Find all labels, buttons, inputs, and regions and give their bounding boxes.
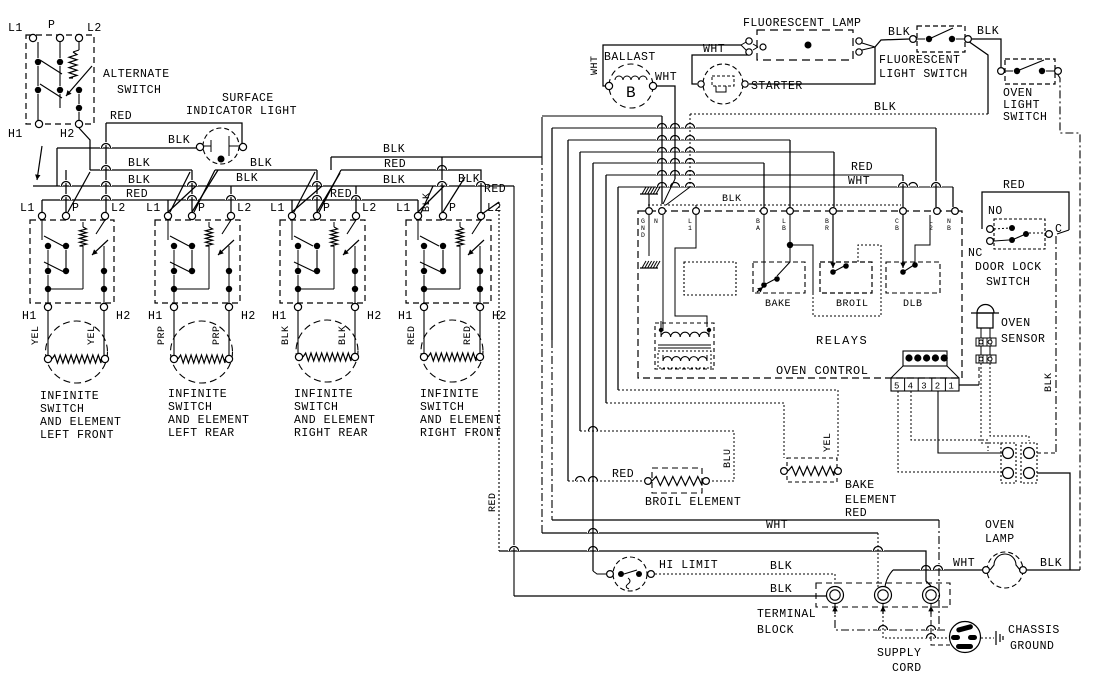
svg-text:5: 5 xyxy=(894,382,900,392)
svg-text:BAKE: BAKE xyxy=(765,299,791,310)
wire L2 line to terminal3 xyxy=(499,551,931,586)
wire terminal2 down to supply xyxy=(883,604,950,638)
right rear H1 wire to element xyxy=(297,311,299,353)
svg-text:INDICATOR LIGHT: INDICATOR LIGHT xyxy=(186,105,297,118)
BLK wire y205 xyxy=(648,204,901,206)
door lock contacts xyxy=(1009,225,1015,231)
starter circle xyxy=(703,64,743,104)
harness connector block 1 xyxy=(1001,443,1016,483)
hi limit feed xyxy=(592,163,594,571)
wire BLK bus y170 segment 1 xyxy=(90,169,192,171)
oven sensor bulb xyxy=(977,305,994,314)
wire LB junction to right xyxy=(790,245,813,293)
svg-text:RED: RED xyxy=(463,325,474,345)
svg-text:BLU: BLU xyxy=(723,448,734,468)
wire BLK hi limit to terminal1 xyxy=(655,574,835,586)
wire pin5 down xyxy=(898,391,1004,472)
svg-text:SUPPLY: SUPPLY xyxy=(877,647,921,660)
wire pin1 to sensor xyxy=(959,384,979,386)
infinite switch right rear box xyxy=(280,220,365,303)
transformer primary coil xyxy=(661,332,709,337)
vertical wire x662 from bus to N xyxy=(661,116,663,204)
right rear internal contacts xyxy=(291,220,293,240)
svg-text:L1: L1 xyxy=(8,22,23,35)
svg-text:HI LIMIT: HI LIMIT xyxy=(659,559,718,572)
svg-text:SWITCH: SWITCH xyxy=(40,403,84,416)
wire BLK bus y170 segment 2 xyxy=(215,169,317,171)
vertical wire x690 dotted xyxy=(689,114,691,187)
svg-text:N: N xyxy=(654,218,658,225)
svg-text:RED: RED xyxy=(845,507,867,520)
wire N to transformer xyxy=(662,215,664,331)
connector plug body xyxy=(903,351,947,366)
bake element terminals and resistor xyxy=(781,468,788,475)
svg-text:H1: H1 xyxy=(272,310,287,323)
door lock terminals xyxy=(987,226,994,233)
starter terminals xyxy=(698,81,704,87)
terminal block terminal 2 xyxy=(875,587,892,604)
svg-text:BLK: BLK xyxy=(722,194,742,205)
wire BLK top drop to P block4 xyxy=(441,157,443,212)
BAKE relay contacts xyxy=(761,282,767,288)
svg-text:RIGHT REAR: RIGHT REAR xyxy=(294,427,368,440)
bus line7 to NB terminal xyxy=(952,187,954,207)
internal ground symbol xyxy=(640,267,658,269)
wire from alternate switch H2 xyxy=(79,128,90,170)
svg-text:BLK: BLK xyxy=(1040,557,1062,570)
svg-text:RIGHT FRONT: RIGHT FRONT xyxy=(420,427,501,440)
BROIL relay contacts xyxy=(830,269,836,275)
connector numbered strip xyxy=(891,378,959,391)
svg-text:L1: L1 xyxy=(20,202,35,215)
svg-text:INFINITE: INFINITE xyxy=(294,388,353,401)
wire RED feed door lock xyxy=(982,192,1069,230)
terminal block terminal 3 xyxy=(923,587,940,604)
svg-text:TERMINAL: TERMINAL xyxy=(757,608,816,621)
wire L1 terminal drop xyxy=(695,205,697,208)
oven lamp filament xyxy=(990,554,1020,570)
right rear bottom internal wire xyxy=(298,288,334,290)
svg-text:WHT: WHT xyxy=(655,71,677,84)
wire L2 drop of block1 xyxy=(105,123,107,212)
svg-text:ELEMENT: ELEMENT xyxy=(845,494,897,507)
svg-text:BLK: BLK xyxy=(770,583,792,596)
svg-text:P: P xyxy=(198,202,205,215)
svg-text:OVEN: OVEN xyxy=(985,519,1015,532)
wire ballast left up and over xyxy=(603,45,741,86)
svg-text:INFINITE: INFINITE xyxy=(40,390,99,403)
infinite switch right front terminal H2 xyxy=(476,303,483,310)
bus bumps xyxy=(102,166,111,171)
svg-text:WHT: WHT xyxy=(590,55,601,75)
arm diagonal L2 block4 to V1 xyxy=(482,202,499,214)
connector trapezoid xyxy=(891,366,903,378)
svg-text:BLK: BLK xyxy=(770,560,792,573)
svg-text:INFINITE: INFINITE xyxy=(420,388,479,401)
wire starter right to lamp right xyxy=(749,47,875,84)
wire RED to supply xyxy=(552,519,939,521)
svg-text:FLUORESCENT: FLUORESCENT xyxy=(879,54,960,67)
svg-text:A: A xyxy=(756,225,760,232)
svg-text:RED: RED xyxy=(484,183,506,196)
svg-text:B: B xyxy=(825,218,829,225)
left rear internal contacts xyxy=(167,220,169,240)
svg-text:L2: L2 xyxy=(362,202,377,215)
fluorescent light switch box xyxy=(917,26,965,52)
svg-text:BALLAST: BALLAST xyxy=(604,51,656,64)
infinite switch left rear terminal H2 xyxy=(225,303,232,310)
infinite switch left rear box xyxy=(155,220,240,303)
wire L1 to transformer xyxy=(675,215,707,327)
hi limit contacts xyxy=(618,571,624,577)
svg-text:C: C xyxy=(1055,223,1062,236)
svg-text:STARTER: STARTER xyxy=(751,80,803,93)
svg-text:PRP: PRP xyxy=(157,325,168,345)
svg-text:D: D xyxy=(641,232,645,239)
svg-text:H2: H2 xyxy=(116,310,131,323)
bake element box xyxy=(787,458,837,482)
lamp right terminals xyxy=(856,38,862,44)
left front H2 wire to element xyxy=(103,311,105,355)
svg-text:LIGHT SWITCH: LIGHT SWITCH xyxy=(879,68,968,81)
svg-text:1: 1 xyxy=(688,225,692,232)
svg-text:AND ELEMENT: AND ELEMENT xyxy=(294,414,375,427)
right rear H2 wire to element xyxy=(354,311,356,353)
wire BLK to indicator left xyxy=(57,147,196,149)
svg-text:B: B xyxy=(782,225,786,232)
wire P stub block2 xyxy=(191,170,193,212)
wire V1 red drop from switches xyxy=(498,202,500,551)
svg-text:RED: RED xyxy=(110,110,132,123)
alternate switch terminal L1 xyxy=(29,34,36,41)
right front H2 wire to element xyxy=(479,311,481,353)
svg-text:WHT: WHT xyxy=(953,557,975,570)
infinite switch right front box xyxy=(406,220,491,303)
arm diagonal P block3 xyxy=(319,170,341,212)
svg-text:BLK: BLK xyxy=(128,157,150,170)
svg-text:P: P xyxy=(323,202,330,215)
svg-text:B: B xyxy=(947,225,951,232)
svg-text:NO: NO xyxy=(988,205,1003,218)
svg-text:RED: RED xyxy=(1003,179,1025,192)
wire lamp to right vertical xyxy=(1027,569,1080,571)
svg-text:L1: L1 xyxy=(396,202,411,215)
svg-text:L2: L2 xyxy=(87,22,102,35)
svg-text:YEL: YEL xyxy=(823,432,834,452)
alternate switch terminal L2 xyxy=(75,34,82,41)
element resistor right front xyxy=(420,353,427,360)
wire RED bus y200 xyxy=(42,199,418,201)
svg-text:BLK: BLK xyxy=(383,174,405,187)
bus line1 right vertical up to fluorescent switch xyxy=(968,41,988,114)
svg-text:N: N xyxy=(947,218,951,225)
right front bottom internal wire xyxy=(424,288,460,290)
svg-text:BLK: BLK xyxy=(338,325,349,345)
right front internal resistor xyxy=(457,227,464,246)
svg-text:B: B xyxy=(756,218,760,225)
svg-text:DLB: DLB xyxy=(903,299,923,310)
bus line3 to LB terminal xyxy=(789,140,791,207)
surface indicator terminal right xyxy=(239,143,246,150)
element resistor right rear xyxy=(295,353,302,360)
svg-text:H1: H1 xyxy=(148,310,163,323)
wire fluorescent switch to oven light switch xyxy=(972,39,1001,67)
svg-text:DOOR LOCK: DOOR LOCK xyxy=(975,261,1042,274)
broil element box xyxy=(652,468,702,493)
fluorescent lamp dashed box xyxy=(757,30,853,60)
svg-text:BLK: BLK xyxy=(281,325,292,345)
oven lamp terminals xyxy=(983,567,990,574)
top BLK line over blocks 3-4 xyxy=(330,157,332,170)
svg-text:SWITCH: SWITCH xyxy=(1003,111,1047,124)
sensor leads xyxy=(980,328,982,338)
svg-text:SURFACE: SURFACE xyxy=(222,92,274,105)
svg-text:WHT: WHT xyxy=(848,175,870,188)
svg-text:SENSOR: SENSOR xyxy=(1001,333,1045,346)
svg-text:SWITCH: SWITCH xyxy=(420,401,464,414)
starter internals xyxy=(712,76,734,86)
left front internal resistor xyxy=(80,227,87,246)
oven light switch contacts xyxy=(1014,68,1020,74)
right front pivot arm xyxy=(472,220,481,234)
fluorescent light switch contacts xyxy=(926,36,932,42)
wire WHT to terminal 2 xyxy=(542,532,878,534)
DLB relay contacts xyxy=(900,269,906,275)
svg-text:P: P xyxy=(72,202,79,215)
svg-text:BLK: BLK xyxy=(888,26,910,39)
infinite switch right rear terminal L2 xyxy=(352,212,359,219)
svg-text:BLK: BLK xyxy=(168,134,190,147)
svg-text:SWITCH: SWITCH xyxy=(294,401,338,414)
svg-text:AND ELEMENT: AND ELEMENT xyxy=(40,416,121,429)
wire V3 long vertical xyxy=(541,157,543,533)
wire ballast right down xyxy=(657,86,675,179)
chassis ground wire xyxy=(981,637,994,639)
svg-text:BAKE: BAKE xyxy=(845,479,875,492)
element circle right rear xyxy=(296,320,358,382)
infinite switch left front terminal P xyxy=(62,212,69,219)
arm diagonal L1 block4 xyxy=(420,186,433,215)
door lock switch box xyxy=(994,219,1045,249)
arm diagonal P block1 xyxy=(68,172,90,212)
svg-text:RED: RED xyxy=(330,188,352,201)
svg-text:BLK: BLK xyxy=(874,101,896,114)
bus verticals left side going down xyxy=(551,128,553,340)
svg-text:SWITCH: SWITCH xyxy=(986,276,1030,289)
svg-text:OVEN CONTROL: OVEN CONTROL xyxy=(776,364,868,378)
ground symbol above box xyxy=(640,193,658,195)
svg-text:ALTERNATE: ALTERNATE xyxy=(103,68,170,81)
bus line1 right BLK segment xyxy=(690,113,988,115)
relay coil empty box xyxy=(684,262,736,295)
wire broil RED feed xyxy=(568,480,644,482)
wire P stub block3 xyxy=(316,170,318,212)
surface indicator internals xyxy=(204,145,211,147)
nested bus lines xyxy=(542,115,662,117)
svg-text:RED: RED xyxy=(851,161,873,174)
infinite switch right rear terminal L1 xyxy=(288,212,295,219)
svg-text:BLK: BLK xyxy=(383,143,405,156)
wire broil BLU return xyxy=(580,431,734,481)
svg-text:BLK: BLK xyxy=(977,25,999,38)
left rear H1 wire to element xyxy=(173,311,175,355)
switch feeder diagonals xyxy=(168,186,196,212)
infinite switch right front terminal H1 xyxy=(420,303,427,310)
left rear H2 wire to element xyxy=(228,311,230,355)
lamp filament dot xyxy=(805,42,812,49)
svg-text:INFINITE: INFINITE xyxy=(168,388,227,401)
wire RED vertical dashdot xyxy=(938,520,940,631)
wire oven light switch down to lamp feed xyxy=(1058,75,1080,570)
right rear internal resistor xyxy=(331,227,338,246)
supply cord plug xyxy=(950,622,981,653)
infinite switch left front terminal L2 xyxy=(101,212,108,219)
bus line5 to BA terminal xyxy=(763,163,765,207)
sensor wires down to connectors xyxy=(981,363,1001,443)
infinite switch right rear terminal P xyxy=(313,212,320,219)
BAKE relay box xyxy=(753,262,805,293)
alternate switch resistor xyxy=(69,52,77,78)
arm diagonal L1 block2 xyxy=(170,172,190,212)
fluorescent light switch terminals xyxy=(910,36,917,43)
element circle right front xyxy=(421,320,483,382)
BROIL relay box xyxy=(820,262,872,293)
DLB relay box xyxy=(886,262,940,293)
wire solid into terminal2 xyxy=(877,533,879,588)
wire terminal3 down to supply xyxy=(931,604,950,645)
infinite switch right front terminal L2 xyxy=(477,212,484,219)
alternate switch internal wires xyxy=(37,42,39,58)
terminal block entry arrows xyxy=(834,606,836,614)
ballast terminals xyxy=(605,82,612,89)
svg-text:B: B xyxy=(895,225,899,232)
left front H1 wire to element xyxy=(47,311,49,355)
arm diagonal L1 block3 xyxy=(294,172,315,212)
svg-text:C: C xyxy=(895,218,899,225)
svg-text:H1: H1 xyxy=(22,310,37,323)
svg-text:CHASSIS: CHASSIS xyxy=(1008,624,1060,637)
bus line4 to BR terminal xyxy=(833,152,835,207)
wire terminal1 down to supply xyxy=(835,604,948,630)
svg-text:CORD: CORD xyxy=(892,662,922,675)
svg-text:P: P xyxy=(48,19,55,32)
arrow pointer below H1 xyxy=(37,146,42,180)
svg-text:L2: L2 xyxy=(111,202,126,215)
svg-text:BROIL ELEMENT: BROIL ELEMENT xyxy=(645,496,741,509)
svg-text:OVEN: OVEN xyxy=(1001,317,1031,330)
hi limit circle xyxy=(613,557,647,591)
infinite switch left front terminal H2 xyxy=(100,303,107,310)
svg-text:BROIL: BROIL xyxy=(836,299,869,310)
surface indicator terminal left xyxy=(196,143,203,150)
terminal block terminal 1 xyxy=(827,587,844,604)
BROIL output loop xyxy=(813,245,881,316)
svg-text:3: 3 xyxy=(921,382,927,392)
svg-text:LEFT FRONT: LEFT FRONT xyxy=(40,429,114,442)
oven light switch box xyxy=(1005,59,1055,84)
svg-text:H2: H2 xyxy=(367,310,382,323)
svg-text:AND ELEMENT: AND ELEMENT xyxy=(168,414,249,427)
wire pin4 down xyxy=(911,391,988,451)
bus line6 to CB terminal xyxy=(902,175,904,207)
infinite switch left rear terminal L1 xyxy=(164,212,171,219)
infinite switch left front box xyxy=(30,220,114,303)
element circle left rear xyxy=(171,321,233,383)
right front H1 wire to element xyxy=(423,311,425,353)
hi limit terminals xyxy=(607,571,614,578)
svg-text:SWITCH: SWITCH xyxy=(117,84,161,97)
svg-text:AND ELEMENT: AND ELEMENT xyxy=(420,414,501,427)
wire transformer to N xyxy=(660,321,662,329)
infinite switch right rear terminal H2 xyxy=(351,303,358,310)
svg-text:H2: H2 xyxy=(241,310,256,323)
svg-text:RED: RED xyxy=(126,188,148,201)
element resistor left front xyxy=(44,355,51,362)
svg-text:RED: RED xyxy=(612,468,634,481)
svg-text:G: G xyxy=(641,218,645,225)
right front internal contacts xyxy=(417,220,419,240)
svg-text:SWITCH: SWITCH xyxy=(168,401,212,414)
infinite switch left rear terminal P xyxy=(188,212,195,219)
svg-text:RED: RED xyxy=(384,158,406,171)
alternate switch contacts xyxy=(35,59,41,65)
lamp left terminals xyxy=(741,41,748,45)
wire pin2 down xyxy=(938,391,1003,453)
wire P drop of block1 xyxy=(65,170,67,212)
wire lamp right to fluorescent light switch xyxy=(875,39,909,47)
element circle left front xyxy=(46,321,108,383)
surface indicator light circle xyxy=(203,128,239,164)
svg-text:LAMP: LAMP xyxy=(985,533,1015,546)
terminal block box xyxy=(816,583,950,607)
transformer core xyxy=(658,344,711,346)
harness connector block 2 xyxy=(1021,443,1037,483)
left front bottom internal wire xyxy=(48,288,83,290)
wire RED to indicator right xyxy=(106,123,242,143)
right rear pivot arm xyxy=(347,220,356,234)
wire L2 stub block2 xyxy=(230,186,232,212)
broil element terminals and resistor xyxy=(645,478,652,485)
alternate switch arm with arrow xyxy=(66,66,92,96)
chassis ground symbol xyxy=(995,631,997,645)
wire starter left connection xyxy=(692,55,749,84)
svg-text:L: L xyxy=(782,218,786,225)
svg-text:L1: L1 xyxy=(270,202,285,215)
svg-text:RELAYS: RELAYS xyxy=(816,334,868,348)
infinite switch left rear terminal L2 xyxy=(227,212,234,219)
svg-text:WHT: WHT xyxy=(703,43,725,56)
transformer inner dotted box xyxy=(658,351,711,368)
svg-text:GROUND: GROUND xyxy=(1010,640,1054,653)
wire bake left feed xyxy=(606,403,784,458)
svg-text:H1: H1 xyxy=(398,310,413,323)
oven light switch terminals xyxy=(998,68,1005,75)
alternate switch terminal H1 xyxy=(35,120,42,127)
svg-text:B: B xyxy=(626,84,636,102)
left rear pivot arm xyxy=(222,220,231,234)
svg-text:4: 4 xyxy=(908,382,914,392)
svg-text:BLK: BLK xyxy=(1044,372,1055,392)
wire V2 drop xyxy=(513,186,515,596)
svg-text:LEFT REAR: LEFT REAR xyxy=(168,427,235,440)
wire BLK bottom line xyxy=(514,595,826,597)
svg-text:N: N xyxy=(641,225,645,232)
svg-text:WHT: WHT xyxy=(766,519,788,532)
svg-text:L1: L1 xyxy=(146,202,161,215)
infinite switch left rear terminal H1 xyxy=(170,303,177,310)
svg-text:BLK: BLK xyxy=(128,174,150,187)
wire LB junction xyxy=(787,242,793,248)
